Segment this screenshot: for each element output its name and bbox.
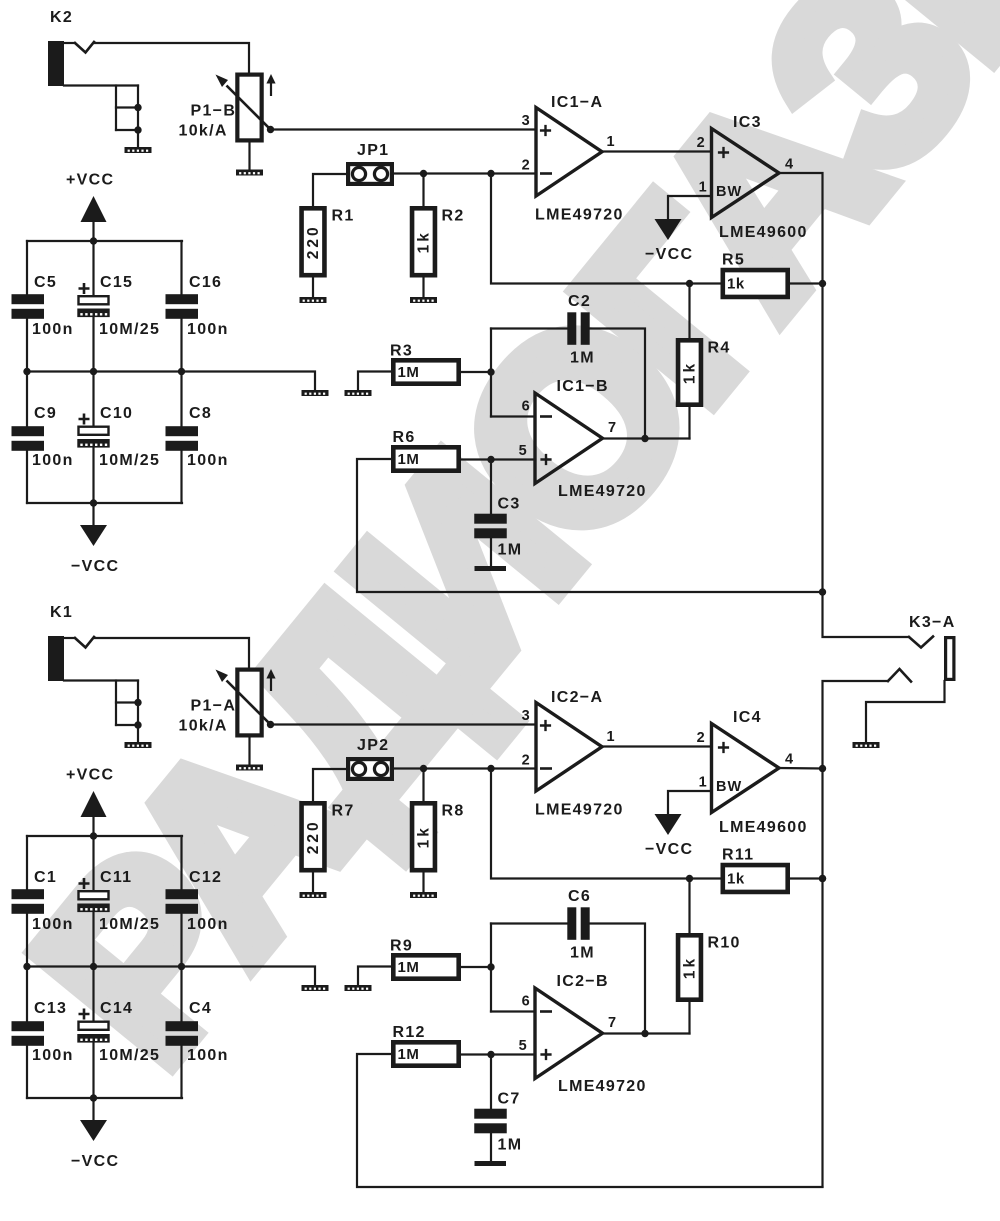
- bottom rail: [27, 499, 182, 506]
- top rail: [27, 832, 182, 839]
- wire to C12: [180, 836, 182, 889]
- svg-text:C9: C9: [34, 405, 57, 422]
- wire IC1−A out to IC3: [602, 150, 712, 152]
- svg-text:BW: BW: [716, 779, 742, 795]
- svg-text:R6: R6: [393, 429, 416, 446]
- resistor R2 1k: [412, 208, 465, 276]
- pin labels IC3: [697, 135, 795, 196]
- svg-text:IC1−A: IC1−A: [551, 94, 603, 111]
- svg-text:1: 1: [607, 729, 616, 745]
- wire pin6: [491, 1010, 535, 1012]
- svg-text:100n: 100n: [32, 321, 74, 338]
- svg-text:C5: C5: [34, 274, 57, 291]
- svg-text:C1: C1: [34, 869, 57, 886]
- wire JP1 to R1: [313, 174, 346, 206]
- input jack K2: [48, 9, 249, 153]
- wire C8 to bottom rail: [180, 451, 182, 503]
- svg-text:1M: 1M: [498, 542, 523, 559]
- output jack K3-A ground: [853, 681, 945, 748]
- op-amp IC2−B: [535, 973, 647, 1095]
- svg-text:JP2: JP2: [357, 737, 389, 754]
- svg-text:1M: 1M: [498, 1137, 523, 1154]
- svg-text:100n: 100n: [32, 916, 74, 933]
- ground below P1−A: [236, 738, 263, 771]
- svg-text:P1−B: P1−B: [191, 103, 237, 120]
- svg-text:P1−A: P1−A: [191, 698, 237, 715]
- jumper JP1: [348, 142, 392, 184]
- svg-text:4: 4: [785, 157, 794, 173]
- svg-text:−VCC: −VCC: [645, 246, 693, 263]
- output jack K3-A tip contact: [909, 614, 956, 648]
- svg-text:IC2−A: IC2−A: [551, 689, 603, 706]
- capacitor C2 1M: [491, 293, 645, 439]
- resistor R12 1M: [393, 1024, 459, 1066]
- buffer IC4 output wire: [779, 765, 826, 772]
- wire C11 to mid rail: [92, 912, 94, 967]
- wire C15 to mid rail: [92, 317, 94, 372]
- wire IC1−B out: [603, 435, 690, 442]
- svg-text:7: 7: [608, 1015, 617, 1031]
- svg-text:LME49720: LME49720: [558, 483, 647, 500]
- resistor R10 1k: [678, 879, 741, 1034]
- svg-text:R9: R9: [390, 938, 413, 955]
- capacitor C1 100n: [12, 869, 74, 933]
- wire feedback: [491, 769, 721, 883]
- wire C16 to mid rail: [180, 319, 182, 372]
- svg-text:100n: 100n: [32, 452, 74, 469]
- mid rail: [23, 963, 185, 970]
- output jack K3-A ring contact: [823, 669, 912, 769]
- svg-text:C7: C7: [498, 1091, 521, 1108]
- svg-text:R4: R4: [708, 340, 731, 357]
- svg-text:IC1−B: IC1−B: [557, 378, 609, 395]
- svg-text:100n: 100n: [187, 916, 229, 933]
- wire IC2−A out to IC4: [602, 745, 712, 747]
- wire C13 to bottom rail: [26, 1046, 28, 1098]
- svg-text:100n: 100n: [187, 321, 229, 338]
- svg-text:LME49720: LME49720: [558, 1078, 647, 1095]
- wire to C10: [92, 372, 94, 426]
- wire wiper to IC2−A pin3: [274, 723, 536, 725]
- node feedback: [487, 765, 494, 772]
- svg-text:IC3: IC3: [733, 114, 762, 131]
- svg-text:10M/25: 10M/25: [99, 452, 160, 469]
- svg-text:LME49600: LME49600: [719, 224, 808, 241]
- ground stub at R9: [345, 967, 392, 992]
- -VCC at IC3 BW pin: [645, 196, 712, 263]
- svg-text:R7: R7: [332, 803, 355, 820]
- svg-text:+VCC: +VCC: [66, 767, 114, 784]
- wire R5 right: [790, 280, 826, 287]
- resistor R8 1k: [412, 803, 465, 871]
- buffer IC3 output wire: [779, 173, 909, 637]
- svg-text:K1: K1: [50, 604, 73, 621]
- svg-text:−VCC: −VCC: [71, 558, 119, 575]
- wire JP2 to pin2: [394, 767, 536, 769]
- svg-text:K3−A: K3−A: [909, 614, 956, 631]
- potentiometer P1−A: [179, 669, 276, 735]
- ground stub at R3: [345, 372, 392, 397]
- wire C5 to mid rail: [26, 319, 28, 372]
- svg-text:10k/A: 10k/A: [179, 718, 228, 735]
- svg-text:R5: R5: [722, 252, 745, 269]
- svg-text:C3: C3: [498, 496, 521, 513]
- svg-text:BW: BW: [716, 184, 742, 200]
- svg-text:C11: C11: [100, 869, 132, 886]
- output jack K3-A body: [946, 638, 954, 680]
- electrolytic C14 10M/25: [77, 1000, 160, 1064]
- capacitor C8 100n: [166, 405, 229, 469]
- svg-text:C6: C6: [568, 888, 591, 905]
- wire to C14: [92, 967, 94, 1021]
- svg-text:C2: C2: [568, 293, 591, 310]
- svg-text:+VCC: +VCC: [66, 172, 114, 189]
- resistor R1 220: [302, 208, 355, 276]
- svg-text:4: 4: [785, 752, 794, 768]
- svg-text:IC4: IC4: [733, 709, 762, 726]
- svg-text:C13: C13: [34, 1000, 67, 1017]
- wire IC4 out to R11 node: [819, 769, 826, 883]
- mid rail: [23, 368, 185, 375]
- capacitor C16 100n: [166, 274, 229, 338]
- svg-text:100n: 100n: [187, 452, 229, 469]
- wire IC2−B out: [603, 1030, 690, 1037]
- svg-text:1: 1: [699, 180, 708, 196]
- pin labels IC1−B: [519, 399, 618, 460]
- wire to C1: [26, 836, 28, 889]
- wire R6 left to output net: [357, 459, 823, 592]
- node R9 right: [461, 924, 495, 1012]
- svg-text:R11: R11: [722, 847, 754, 864]
- svg-text:1M: 1M: [570, 945, 595, 962]
- wire to C4: [180, 967, 182, 1022]
- ground below R2: [410, 278, 437, 304]
- svg-text:100n: 100n: [32, 1047, 74, 1064]
- svg-text:LME49720: LME49720: [535, 207, 624, 224]
- svg-text:LME49600: LME49600: [719, 819, 808, 836]
- wire R11 node down to bottom wire: [821, 879, 823, 1187]
- svg-text:C16: C16: [189, 274, 222, 291]
- svg-text:3: 3: [522, 708, 531, 724]
- ground stub from supply rail: [182, 372, 329, 397]
- electrolytic C15 10M/25: [77, 274, 160, 338]
- svg-text:R2: R2: [442, 208, 465, 225]
- svg-text:R1: R1: [332, 208, 355, 225]
- wire pin5: [461, 456, 535, 463]
- svg-text:C8: C8: [189, 405, 212, 422]
- svg-text:1k: 1k: [727, 276, 745, 293]
- top rail: [27, 237, 182, 244]
- capacitor C9 100n: [12, 405, 74, 469]
- svg-text:5: 5: [519, 443, 528, 459]
- svg-text:IC2−B: IC2−B: [557, 973, 609, 990]
- input jack K1: [48, 604, 249, 748]
- svg-text:R3: R3: [390, 343, 413, 360]
- svg-text:C10: C10: [100, 405, 133, 422]
- resistor R11 1k: [722, 847, 788, 892]
- ground below R1: [300, 278, 327, 304]
- svg-text:R10: R10: [708, 935, 741, 952]
- svg-text:5: 5: [519, 1038, 528, 1054]
- svg-text:7: 7: [608, 420, 617, 436]
- resistor R4 1k: [678, 284, 731, 439]
- wire wiper to IC1−A pin3: [274, 128, 536, 130]
- wire R11 right: [790, 875, 826, 882]
- electrolytic C10 10M/25: [77, 405, 160, 469]
- svg-text:6: 6: [522, 399, 531, 415]
- svg-text:3: 3: [522, 113, 531, 129]
- wire to C15: [92, 241, 94, 295]
- ground below P1−B: [236, 143, 263, 176]
- svg-text:2: 2: [697, 730, 706, 746]
- +VCC arrow: [66, 767, 114, 837]
- svg-text:LME49720: LME49720: [535, 802, 624, 819]
- svg-text:10M/25: 10M/25: [99, 916, 160, 933]
- svg-text:10M/25: 10M/25: [99, 321, 160, 338]
- svg-text:220: 220: [305, 819, 322, 854]
- op-amp IC2−A: [535, 689, 624, 819]
- svg-text:1M: 1M: [398, 959, 420, 976]
- svg-text:−VCC: −VCC: [645, 841, 693, 858]
- resistor R5 1k: [722, 252, 788, 297]
- svg-text:R12: R12: [393, 1024, 426, 1041]
- node R3 right: [461, 329, 495, 417]
- svg-text:1k: 1k: [416, 825, 433, 848]
- svg-text:C4: C4: [189, 1000, 212, 1017]
- svg-text:1k: 1k: [416, 230, 433, 253]
- wire pin5: [461, 1051, 535, 1058]
- wire to C11: [92, 836, 94, 890]
- op-amp IC1−B: [535, 378, 647, 500]
- pin labels IC4: [697, 730, 795, 791]
- node R2 top: [420, 765, 427, 801]
- capacitor C12 100n: [166, 869, 229, 933]
- wire C14 to bottom rail: [92, 1043, 94, 1099]
- wire C9 to bottom rail: [26, 451, 28, 503]
- wire to C5: [26, 241, 28, 294]
- svg-text:R8: R8: [442, 803, 465, 820]
- svg-text:C12: C12: [189, 869, 222, 886]
- wire JP1 to pin2: [394, 172, 536, 174]
- svg-text:1k: 1k: [727, 871, 745, 888]
- wire to C8: [180, 372, 182, 427]
- buffer IC3 LME49600: [712, 114, 808, 241]
- svg-text:1k: 1k: [682, 956, 699, 979]
- svg-text:100n: 100n: [187, 1047, 229, 1064]
- capacitor C5 100n: [12, 274, 74, 338]
- wire C1 to mid rail: [26, 914, 28, 967]
- ground stub from supply rail: [182, 967, 329, 992]
- svg-text:1M: 1M: [398, 451, 420, 468]
- svg-text:1M: 1M: [570, 350, 595, 367]
- node R2 top: [420, 170, 427, 206]
- resistor R3 1M: [390, 343, 459, 384]
- svg-text:K2: K2: [50, 9, 73, 26]
- ground below R7: [300, 873, 327, 899]
- resistor R7 220: [302, 803, 355, 871]
- capacitor C3 1M: [474, 460, 522, 572]
- pin labels IC2−B: [519, 994, 618, 1055]
- svg-text:1M: 1M: [398, 364, 420, 381]
- capacitor C6 1M: [491, 888, 645, 1034]
- wire R12 left to output net: [357, 1054, 823, 1187]
- svg-text:220: 220: [305, 224, 322, 259]
- wire C10 to bottom rail: [92, 448, 94, 504]
- wire to C13: [26, 967, 28, 1022]
- -VCC arrow: [71, 1098, 119, 1170]
- potentiometer P1−B: [179, 74, 276, 140]
- svg-text:10M/25: 10M/25: [99, 1047, 160, 1064]
- svg-text:2: 2: [697, 135, 706, 151]
- svg-text:1M: 1M: [398, 1046, 420, 1063]
- wire to C9: [26, 372, 28, 427]
- svg-text:−VCC: −VCC: [71, 1153, 119, 1170]
- electrolytic C11 10M/25: [77, 869, 160, 933]
- svg-text:JP1: JP1: [357, 142, 389, 159]
- wire feedback: [491, 174, 721, 288]
- capacitor C13 100n: [12, 1000, 74, 1064]
- capacitor C7 1M: [474, 1055, 522, 1167]
- -VCC arrow: [71, 503, 119, 575]
- pin labels IC2−A: [522, 708, 616, 769]
- svg-text:C15: C15: [100, 274, 133, 291]
- op-amp IC1−A: [535, 94, 624, 224]
- svg-text:2: 2: [522, 753, 531, 769]
- svg-text:1k: 1k: [682, 361, 699, 384]
- resistor R6 1M: [393, 429, 459, 471]
- svg-text:1: 1: [699, 775, 708, 791]
- wire C4 to bottom rail: [180, 1046, 182, 1098]
- capacitor C4 100n: [166, 1000, 229, 1064]
- svg-text:C14: C14: [100, 1000, 133, 1017]
- +VCC arrow: [66, 172, 114, 242]
- wire JP2 to R7: [313, 769, 346, 801]
- node feedback: [487, 170, 494, 177]
- resistor R9 1M: [390, 938, 459, 979]
- jumper JP2: [348, 737, 392, 779]
- -VCC at IC4 BW pin: [645, 791, 712, 858]
- pin labels IC1−A: [522, 113, 616, 174]
- wire pin6: [491, 415, 535, 417]
- svg-text:1: 1: [607, 134, 616, 150]
- wire to C16: [180, 241, 182, 294]
- svg-text:6: 6: [522, 994, 531, 1010]
- wire C12 to mid rail: [180, 914, 182, 967]
- bottom rail: [27, 1094, 182, 1101]
- buffer IC4 LME49600: [712, 709, 808, 836]
- ground below R8: [410, 873, 437, 899]
- svg-text:2: 2: [522, 158, 531, 174]
- svg-text:10k/A: 10k/A: [179, 123, 228, 140]
